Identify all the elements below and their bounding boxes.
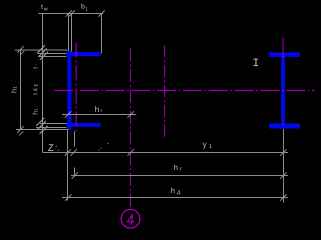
tick [66,10,72,16]
extension line left axis stub [74,131,76,146]
left inner dimension line D2 [42,14,44,153]
bottom dimension line B3 [62,197,288,199]
ticks on D2 top cluster [37,45,45,53]
tick [128,111,134,117]
left channel section: bottom flange [67,123,101,127]
extension line flange bottom [38,56,67,58]
tick D1 bottom [17,126,23,132]
horizontal centerline [54,90,315,92]
extension line bottom flange top [40,123,67,125]
vertical centerline V4 (right beam axis) [282,38,284,129]
ticks B2 [72,172,78,178]
centerline dash over top flange [282,52,284,58]
tick [98,10,104,16]
centerline dash over bottom flange [282,123,284,126]
label z dots [56,146,57,147]
tick [65,111,71,117]
extension line right axis [283,129,285,203]
extension line web left [68,14,70,52]
svg-text:t·: t· [32,62,39,68]
right I-beam: web [281,57,285,124]
left channel section: top flange [67,52,101,56]
extension line web right [71,14,73,52]
tick [69,10,75,16]
left channel section: web [67,50,71,129]
vertical centerline V2 (axis 4) [130,48,132,207]
extension line web bottom long [16,129,69,131]
vertical centerline V1 (left section axis) [75,43,77,133]
ticks B3 [65,194,71,200]
left outer dimension line D1 [20,50,22,130]
ticks on D2 bottom cluster [36,118,44,126]
middle dimension line hg [62,114,136,116]
extension line web top long [15,49,68,51]
right I-beam: top flange [269,52,300,57]
label I section mark [253,59,258,66]
extension line left web bottom [67,130,69,201]
top dimension line [38,13,103,15]
extension line flange tip [101,14,103,54]
label z [49,145,54,151]
svg-text:h1: h1 [31,108,39,115]
right I-beam: bottom flange [269,124,300,129]
vertical centerline V3 [164,46,166,139]
extra slash D1 top [20,51,24,55]
tick D1 top [17,46,23,52]
svg-text:t4ε: t4ε [32,82,39,95]
specks label [107,143,109,145]
extra slash D1 bottom [19,131,23,135]
ticks B1 [65,149,71,155]
axis number 4 [127,214,134,224]
bottom dimension line B1 [43,152,289,154]
extension line bottom flange bottom [36,127,67,129]
extension line flange top [38,53,67,55]
bottom dimension line B2 [71,175,288,177]
axis bubble circle [121,210,140,229]
